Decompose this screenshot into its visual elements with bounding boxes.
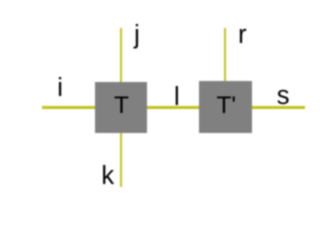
label j xyxy=(134,23,140,49)
label l xyxy=(174,85,180,111)
label s xyxy=(277,84,290,110)
label T xyxy=(114,94,129,119)
tensor T (gray square node) xyxy=(95,82,147,133)
wire r (top leg of T') xyxy=(224,28,227,83)
wire j (top leg of T) xyxy=(120,28,123,83)
wire s (right leg of T') xyxy=(251,106,305,109)
wire l (bond between T and T') xyxy=(146,106,200,109)
wire i (left leg of T) xyxy=(42,106,97,109)
wire k (bottom leg of T) xyxy=(120,132,123,187)
label i xyxy=(57,76,63,102)
label k xyxy=(101,164,114,190)
tensor T' (gray square node) xyxy=(199,81,252,133)
label T' xyxy=(216,94,236,119)
label r xyxy=(238,23,247,49)
